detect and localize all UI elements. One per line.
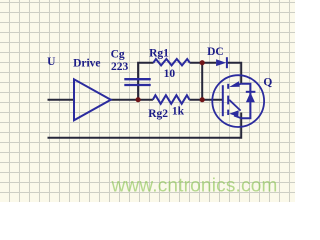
svg-text:www.cntronics.com: www.cntronics.com xyxy=(111,175,278,196)
svg-text:Drive: Drive xyxy=(73,58,100,70)
svg-text:10: 10 xyxy=(164,68,176,80)
svg-text:DC: DC xyxy=(207,46,224,58)
svg-text:Cg: Cg xyxy=(111,48,125,60)
svg-text:223: 223 xyxy=(111,61,129,73)
svg-text:Q: Q xyxy=(263,76,272,88)
svg-text:U: U xyxy=(47,56,56,68)
svg-text:Rg2: Rg2 xyxy=(148,108,168,120)
svg-text:1k: 1k xyxy=(172,106,185,118)
svg-text:Rg1: Rg1 xyxy=(149,48,169,60)
